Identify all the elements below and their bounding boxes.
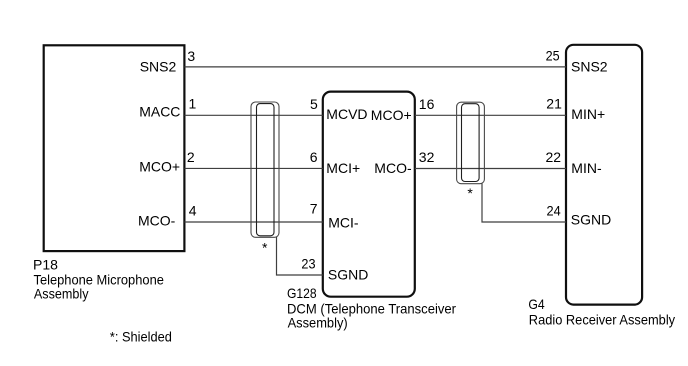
svg-text:Assembly): Assembly): [288, 314, 348, 330]
svg-text:25: 25: [546, 48, 560, 64]
svg-text:MCO+: MCO+: [139, 159, 180, 175]
svg-text:24: 24: [547, 203, 561, 219]
shield S2 outer (around MCO+/MCO- wires): [457, 102, 485, 184]
shield S1 drain wire to G128 pin 23 (SGND): [277, 237, 323, 275]
wire MCO+: G128 pin 16 to G4 pin 21: [415, 114, 566, 116]
svg-text:MCI-: MCI-: [328, 214, 359, 230]
svg-text:MCO+: MCO+: [371, 107, 412, 123]
svg-text:5: 5: [310, 96, 318, 112]
svg-text:MCI+: MCI+: [326, 160, 360, 176]
wire MCO-: G128 pin 32 to G4 pin 22: [415, 168, 566, 170]
svg-text:3: 3: [187, 48, 195, 64]
svg-text:7: 7: [310, 201, 318, 217]
wire MCO-: P18 pin 4 to G128 pin 7: [184, 221, 322, 223]
svg-text:G128: G128: [287, 285, 317, 301]
svg-text:MIN-: MIN-: [571, 160, 602, 176]
connector G128 (DCM) box: [323, 92, 415, 297]
svg-text:32: 32: [419, 149, 435, 165]
svg-text:Assembly: Assembly: [34, 286, 89, 302]
shield S2 drain wire to G4 pin 24 (SGND): [482, 184, 566, 223]
svg-text:22: 22: [546, 149, 562, 165]
svg-text:MIN+: MIN+: [571, 106, 605, 122]
shield S1 outer (around MACC/MCO+/MCO- wires): [251, 102, 279, 237]
connector P18 (Telephone Microphone Assembly) box: [44, 45, 185, 251]
svg-text:*: *: [262, 240, 268, 256]
svg-text:G4: G4: [528, 296, 544, 312]
svg-text:Radio Receiver Assembly: Radio Receiver Assembly: [529, 311, 675, 327]
svg-text:SGND: SGND: [571, 212, 611, 228]
svg-text:MCVD: MCVD: [326, 106, 367, 122]
svg-text:2: 2: [187, 149, 195, 165]
wire MCO+: P18 pin 2 to G128 pin 6: [184, 167, 322, 169]
svg-text:16: 16: [419, 96, 435, 112]
svg-text:*: *: [467, 185, 473, 201]
svg-text:SNS2: SNS2: [571, 59, 608, 75]
svg-text:SGND: SGND: [328, 266, 368, 282]
svg-text:*: Shielded: *: Shielded: [110, 329, 172, 345]
svg-text:MCO-: MCO-: [138, 212, 176, 228]
svg-text:23: 23: [301, 256, 315, 272]
svg-text:21: 21: [546, 96, 562, 112]
svg-text:MACC: MACC: [139, 103, 180, 119]
svg-text:6: 6: [310, 149, 318, 165]
svg-text:1: 1: [189, 96, 197, 112]
wire MACC: P18 pin 1 to G128 pin 5: [184, 114, 322, 116]
svg-text:4: 4: [189, 203, 197, 219]
shield S1 inner: [257, 104, 275, 236]
svg-text:SNS2: SNS2: [140, 59, 177, 75]
shield S2 inner: [462, 104, 480, 182]
wire SNS2: P18 pin 3 to G4 pin 25: [184, 66, 566, 68]
svg-text:MCO-: MCO-: [374, 160, 412, 176]
svg-text:P18: P18: [33, 257, 58, 273]
connector G4 (Radio Receiver Assembly) box: [566, 45, 642, 305]
